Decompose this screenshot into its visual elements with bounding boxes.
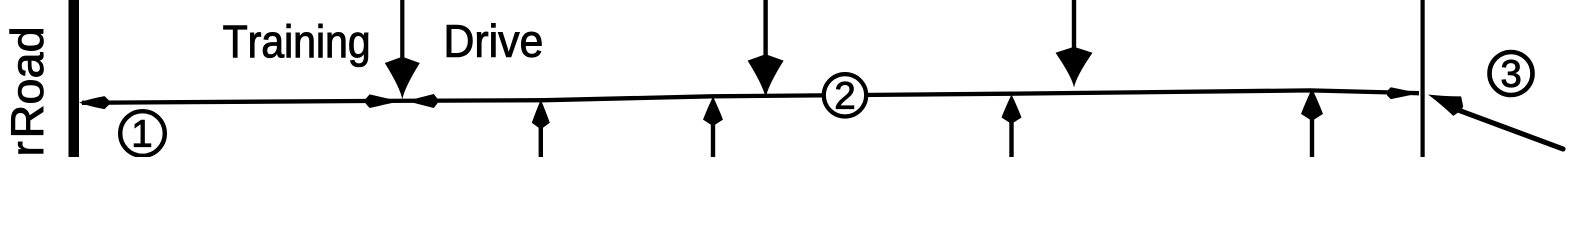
up arrow 4 head — [1301, 89, 1323, 120]
down arrow 2 stem — [763, 0, 767, 58]
label 3 — [1502, 60, 1520, 87]
right vertical road line — [1421, 0, 1425, 157]
street name: Training — [224, 24, 368, 67]
main horizontal roadway line — [82, 90, 1419, 102]
down arrow 3 head — [1056, 48, 1093, 88]
up arrow 1 head — [532, 100, 550, 128]
up arrow 2 head — [703, 97, 723, 125]
up arrow 3 head — [1002, 95, 1022, 123]
label 2 — [836, 82, 854, 109]
diagonal line (from bottom right) — [1450, 107, 1563, 149]
down arrow 3 stem — [1072, 0, 1076, 50]
thick road edge bar (left) — [69, 0, 80, 157]
street name: Drive — [447, 24, 541, 58]
label 1 — [134, 120, 151, 147]
up arrow 2 stem — [711, 110, 715, 157]
down arrow 2 head — [748, 55, 784, 98]
right arrowhead of segment 2 (at right vertical road) — [1387, 87, 1419, 99]
left arrowhead of segment 2 (right of junction) — [407, 94, 438, 108]
circle node 3 — [1490, 52, 1533, 95]
up arrow 3 stem — [1009, 108, 1013, 157]
circle node 1 — [120, 111, 165, 156]
road label (rotated): Road — [10, 29, 44, 134]
left arrowhead of segment 1 (at bar) — [79, 96, 109, 109]
up arrow 1 stem — [539, 114, 543, 157]
road label (rotated): partial letter r — [18, 142, 43, 154]
up arrow 4 stem — [1310, 106, 1314, 157]
right arrowhead of segment 1 (at Training/Drive junction) — [366, 94, 400, 108]
down arrow 1 head — [385, 58, 420, 100]
diagonal arrowhead (points up-left at junction) — [1428, 95, 1463, 116]
down arrow 1 stem — [400, 0, 404, 62]
circle node 2 white mask (gap in line) — [824, 74, 866, 116]
